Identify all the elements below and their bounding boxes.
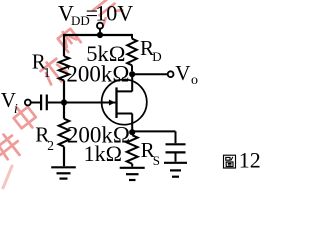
svg-text:2: 2: [47, 138, 54, 153]
svg-text:1: 1: [44, 65, 51, 80]
wire R2 to ground: [63, 147, 65, 167]
transistor Q1 gate arrow: [109, 100, 116, 106]
wire gate node to transistor: [64, 102, 115, 104]
output terminal Vo: [168, 71, 174, 77]
ground under R2: [51, 167, 76, 178]
wire left drop to R1: [63, 34, 65, 56]
transistor Q1 source arm: [117, 114, 133, 133]
watermark stroke group (pink stamp): [0, 0, 122, 188]
transistor Q1 drain arm: [117, 74, 133, 91]
svg-text:1kΩ: 1kΩ: [84, 141, 122, 166]
resistor R2: [59, 119, 70, 147]
wire capacitor to gate node: [48, 102, 64, 104]
node VDD junction: [97, 32, 103, 38]
svg-text:V: V: [175, 61, 190, 85]
wire gate node down to R2: [63, 103, 65, 119]
ground under RS: [120, 168, 145, 180]
wire drain to output: [132, 73, 168, 75]
resistor RS: [127, 135, 138, 164]
resistor R1: [59, 56, 69, 80]
svg-text:10V: 10V: [95, 0, 133, 25]
wire RS to ground: [131, 164, 133, 167]
capacitor CS bypass: [166, 144, 186, 152]
svg-text:12: 12: [239, 148, 261, 173]
svg-text:o: o: [191, 73, 198, 88]
node gate junction: [61, 99, 67, 105]
svg-text:5kΩ: 5kΩ: [86, 41, 125, 66]
transistor Q1 channel bar: [115, 87, 117, 118]
ground under CS: [164, 163, 187, 177]
capacitor C1 coupling: [41, 95, 47, 111]
transistor Q1 envelope: [102, 80, 147, 125]
node drain junction: [129, 71, 135, 77]
svg-text:S: S: [153, 153, 160, 168]
wire VDD stub: [99, 29, 101, 35]
svg-text:i: i: [14, 102, 18, 117]
wire top rail: [64, 34, 132, 36]
wire capacitor to ground: [175, 154, 177, 162]
wire source to bypass capacitor: [133, 131, 176, 143]
wire input to capacitor: [31, 102, 40, 104]
node source junction: [129, 129, 135, 135]
input terminal Vi: [25, 100, 31, 106]
svg-text:D: D: [152, 49, 161, 64]
caption glyph tu (figure): [224, 155, 236, 168]
VDD terminal: [97, 23, 103, 29]
wire R1 to gate node: [63, 80, 65, 102]
resistor RD: [127, 34, 137, 71]
